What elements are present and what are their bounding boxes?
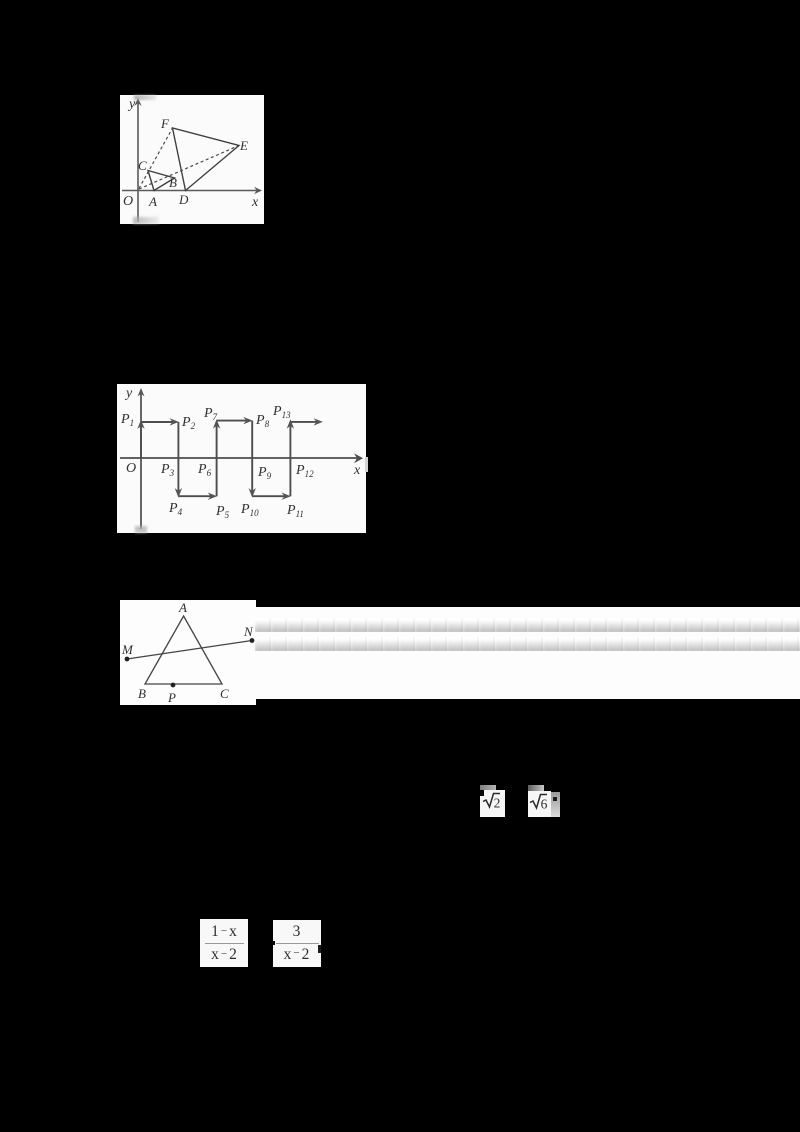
figure 1: dilation triangles on coordinate axes [120, 95, 264, 224]
svg-text:P1: P1 [120, 412, 134, 428]
gray artifact strip above sqrt2 [480, 785, 496, 791]
black notch in sqrt2 box corner [480, 790, 484, 796]
triangle ABC [145, 616, 222, 684]
point M [125, 657, 130, 662]
svg-text:O: O [126, 461, 136, 476]
fraction 3/(x-2) box [273, 920, 321, 967]
gray nub on right box edge [365, 457, 368, 472]
triangle FDE [173, 128, 240, 191]
svg-text:M: M [121, 642, 134, 657]
x-axis [122, 190, 259, 192]
y-axis arrowhead [134, 98, 141, 106]
svg-text:D: D [178, 192, 189, 207]
line MN [127, 641, 252, 660]
black notch at bar left [272, 941, 275, 945]
svg-text:P8: P8 [255, 413, 270, 429]
fraction (1-x)/(x-2) box [200, 919, 248, 967]
svg-text:y: y [124, 386, 133, 401]
svg-text:O: O [123, 194, 133, 209]
svg-text:P9: P9 [257, 465, 272, 481]
wire P11 to P13 [289, 423, 291, 496]
wire P5 to P7 [216, 423, 218, 496]
svg-text:P: P [167, 690, 176, 705]
zig-zag path [141, 421, 320, 497]
svg-text:P11: P11 [286, 503, 304, 519]
sqrt(6) formula box [528, 791, 551, 817]
gray band 1 [255, 618, 800, 633]
arrowheads [137, 417, 323, 500]
svg-text:P10: P10 [240, 502, 259, 518]
scan smudge bottom of y-axis [135, 526, 147, 533]
point P [171, 683, 176, 688]
svg-text:F: F [160, 116, 170, 131]
wire P2 to P4 [177, 422, 179, 494]
scan smudge top of axis [134, 95, 156, 100]
gray artifact strip above sqrt6 [528, 785, 544, 791]
svg-text:B: B [169, 175, 177, 190]
svg-text:N: N [243, 624, 254, 639]
fraction bar [205, 943, 244, 944]
svg-text:2: 2 [494, 795, 501, 810]
svg-text:P6: P6 [197, 462, 212, 478]
x-axis arrowhead [254, 187, 262, 194]
radical sign sqrt2 [480, 790, 505, 817]
sqrt(2) formula box [480, 790, 505, 817]
gray band 2 [255, 637, 800, 652]
svg-text:x: x [251, 195, 259, 210]
denominator x - 2 [200, 946, 248, 964]
y-axis [140, 394, 142, 529]
gray column right of sqrt6 [551, 792, 560, 817]
wire O to P1 [140, 422, 142, 458]
radical sign sqrt6 [528, 791, 551, 817]
svg-text:P3: P3 [160, 462, 175, 478]
white strip right of figure 3 with two scrollbar-like bands [255, 607, 800, 699]
svg-text:P12: P12 [295, 463, 314, 479]
numerator 1 - x [200, 923, 248, 941]
svg-text:x: x [353, 463, 361, 478]
dashed ray O to E [139, 146, 239, 190]
fraction bar [276, 943, 319, 944]
y-axis [137, 103, 139, 222]
svg-text:C: C [220, 686, 229, 701]
wire P10 to P11 [252, 495, 288, 497]
wire P13 onward [290, 421, 320, 423]
svg-text:P4: P4 [168, 501, 183, 517]
svg-text:C: C [138, 158, 147, 173]
point N [250, 638, 255, 643]
figure 2: zig-zag path P1..P13 on axes [117, 384, 366, 533]
dark mark bottom right [318, 945, 322, 953]
scan smudge bottom of axis [133, 217, 159, 224]
svg-text:6: 6 [541, 796, 548, 811]
svg-text:A: A [148, 194, 157, 209]
svg-text:E: E [239, 138, 248, 153]
numerator 3 [273, 923, 321, 941]
x-axis [120, 457, 359, 459]
triangle CAB [148, 171, 175, 191]
figure 3: triangle ABC with transversal MN and point P [120, 600, 256, 705]
svg-text:B: B [138, 686, 146, 701]
wire P1 to P2 [141, 421, 176, 423]
svg-text:P2: P2 [181, 415, 196, 431]
wire P7 to P8 [217, 420, 250, 422]
svg-text:P7: P7 [203, 406, 218, 422]
denominator x - 2 [273, 946, 321, 964]
wire P8 to P10 [251, 421, 253, 494]
dark tick next to sqrt6 [553, 797, 558, 801]
svg-text:P5: P5 [215, 504, 230, 520]
dashed ray O to F [139, 128, 173, 189]
wire P4 to P5 [178, 495, 214, 497]
svg-text:A: A [178, 600, 187, 615]
svg-text:P13: P13 [272, 404, 291, 420]
